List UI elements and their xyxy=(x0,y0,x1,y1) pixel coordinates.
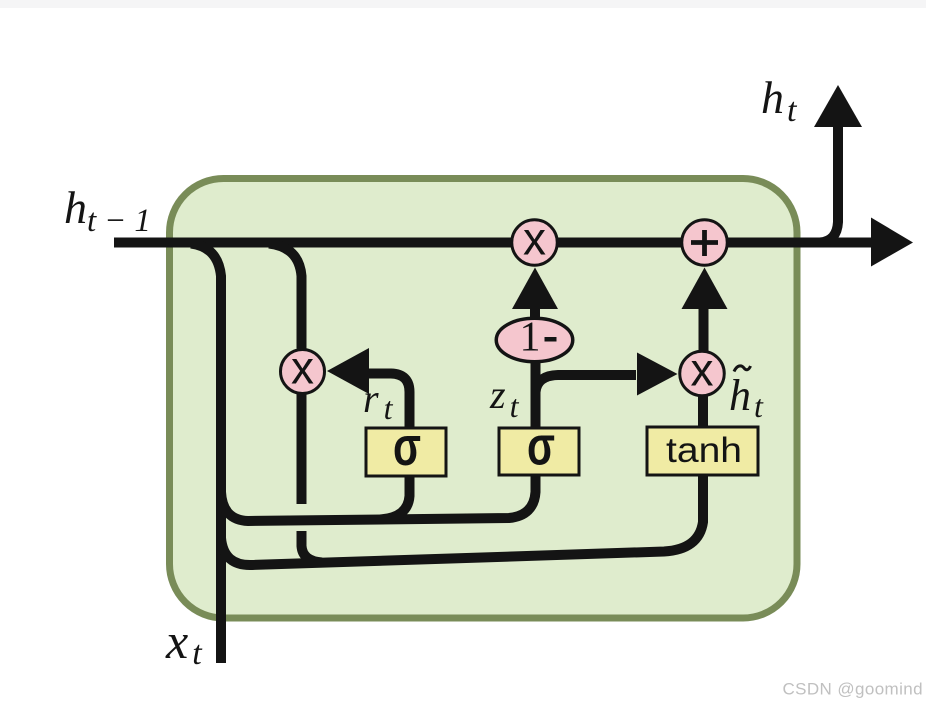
svg-text:ht: ht xyxy=(761,72,798,129)
wire: candidate x down to tanh xyxy=(698,394,708,428)
gate: plus on main line xyxy=(682,220,728,266)
svg-text:ht−1: ht−1 xyxy=(64,182,159,239)
wire: z_t vertical from sigma to 1- xyxy=(531,362,541,428)
top gray strip xyxy=(0,0,926,8)
wire: reset output joining H2 xyxy=(302,531,323,563)
wire: H2 x_t horizontal to tanh xyxy=(221,476,703,565)
wire: z_t branch right to candidate x xyxy=(536,375,637,392)
svg-text:x: x xyxy=(291,342,314,394)
wire: H1 horizontal (concat line to sigma boxes) xyxy=(221,474,536,521)
wire: sigma_r drop into H1 xyxy=(380,474,410,520)
gate: candidate multiply xyxy=(680,351,725,396)
wire: h_t up branch xyxy=(820,126,838,243)
wire: below reset x circle (stub to crossing) xyxy=(297,394,307,504)
svg-text:1: 1 xyxy=(520,315,541,361)
wire: r_t from sigma up and left xyxy=(368,374,410,429)
svg-text:x: x xyxy=(691,344,714,396)
svg-text:σ: σ xyxy=(393,415,421,477)
box: sigma_r xyxy=(366,428,446,476)
1- ellipse xyxy=(496,318,573,362)
svg-text:σ: σ xyxy=(527,415,555,477)
wire: main h line (h_t-1 to h_t) xyxy=(114,238,872,248)
gate: multiply on main line xyxy=(512,220,558,266)
box: tanh xyxy=(647,427,758,475)
arrowhead up (h_t) xyxy=(814,85,862,127)
box: sigma_z xyxy=(499,428,579,475)
arrowhead left into reset x xyxy=(327,348,369,394)
arrowhead up into main x gate xyxy=(512,268,558,310)
wire: stub above 1- ellipse xyxy=(530,306,540,318)
wire: branch A - h_t-1 down to x_t (left long vertical) xyxy=(191,244,221,664)
svg-text:tanh: tanh xyxy=(666,431,742,470)
wire: between + arrow and candidate x xyxy=(699,308,709,352)
svg-text:xt: xt xyxy=(165,613,203,672)
svg-text:CSDN @goomind: CSDN @goomind xyxy=(782,680,923,699)
wire: branch B - h_t-1 down to reset gate xyxy=(269,244,302,349)
gate: reset multiply xyxy=(281,350,325,394)
svg-text:x: x xyxy=(523,213,546,265)
arrowhead up into + gate xyxy=(682,268,728,310)
GRU cell body (rounded green box) xyxy=(170,179,798,619)
arrowhead right into candidate x xyxy=(637,353,678,396)
arrowhead right (h out) xyxy=(871,218,913,267)
